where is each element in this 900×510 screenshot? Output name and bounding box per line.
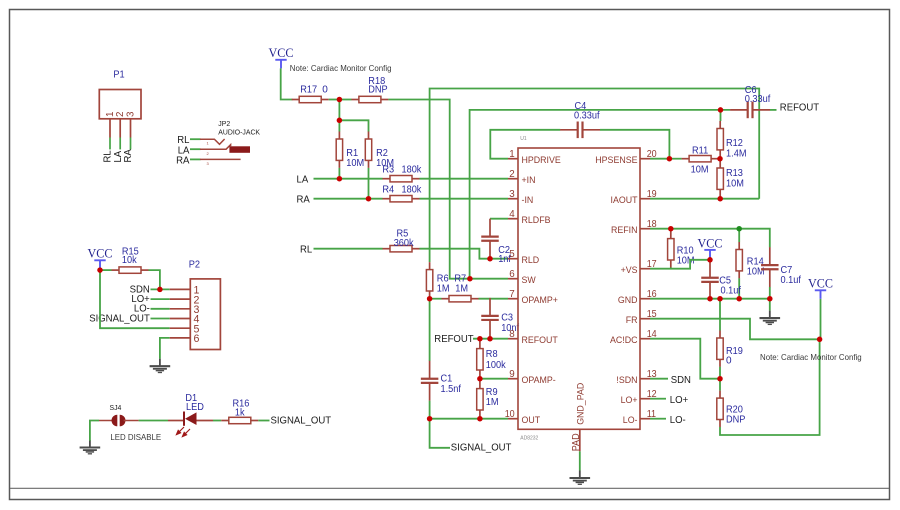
svg-text:1k: 1k — [235, 407, 246, 418]
svg-text:R3: R3 — [382, 165, 394, 176]
wire C1 to OUT line — [429, 401, 431, 419]
U1 pin 13 !SDN — [640, 378, 650, 380]
wire GND line — [650, 298, 770, 300]
junction GND/R19 — [717, 296, 723, 302]
resistor R8 — [477, 341, 483, 377]
svg-text:10M: 10M — [691, 164, 709, 175]
svg-text:FR: FR — [626, 315, 638, 326]
junction VCC/+VS/C5 — [707, 257, 713, 263]
power symbol VCC (right) — [808, 276, 833, 299]
wire RL to jack — [190, 138, 201, 140]
svg-text:LED DISABLE: LED DISABLE — [110, 432, 161, 442]
wire junction to C6 — [712, 109, 730, 111]
U1 pin 9 OPAMP- — [508, 378, 518, 380]
resistor R17 — [292, 96, 329, 102]
wire VCC down — [820, 299, 822, 339]
wire SW net: vertical to C6 line — [470, 110, 712, 279]
power symbol VCC (mid) — [698, 235, 723, 258]
U1 pin 20 HPSENSE — [640, 158, 650, 160]
svg-text:SIGNAL_OUT: SIGNAL_OUT — [89, 313, 150, 324]
wire VCC to P2 pin5 — [100, 270, 170, 328]
wire R18 right, down to SW node — [388, 100, 470, 279]
wire HPSENSE to junction — [650, 158, 669, 160]
P1 pin 3 — [130, 119, 132, 138]
op-amp IC U1 AD8232 body — [518, 148, 640, 429]
junction LA/R1 — [337, 176, 343, 182]
P2 pin 1 — [170, 288, 191, 290]
solder jumper SJ4 — [112, 415, 118, 427]
svg-text:GND_PAD: GND_PAD — [576, 383, 587, 425]
wire VCC stub to node — [709, 259, 711, 260]
svg-text:DNP: DNP — [368, 85, 388, 96]
P2 pin 3 — [170, 308, 191, 310]
svg-text:DNP: DNP — [726, 414, 746, 425]
U1 pin 6 SW — [508, 278, 518, 280]
wire tee to R2 — [339, 120, 368, 131]
svg-text:100k: 100k — [486, 360, 507, 371]
U1 pin 1 HPDRIVE — [508, 158, 518, 160]
junction OUT/R9 — [477, 416, 483, 422]
svg-text:180k: 180k — [402, 165, 423, 176]
svg-text:U1: U1 — [520, 136, 526, 142]
wire ground up to SJ4 — [90, 421, 99, 441]
U1 pin 8 REFOUT — [508, 338, 518, 340]
wire IAOUT line to R13 bottom — [650, 198, 759, 200]
svg-text:LO+: LO+ — [670, 395, 688, 406]
resistor R11 — [682, 156, 719, 162]
U1 pin 14 AC!DC — [640, 338, 650, 340]
svg-text:Note: Cardiac Monitor Config: Note: Cardiac Monitor Config — [760, 352, 862, 362]
U1 pin 10 OUT — [508, 418, 518, 420]
svg-text:P1: P1 — [113, 70, 125, 81]
wire R2 bottom to RA line — [368, 168, 370, 199]
svg-text:SJ4: SJ4 — [110, 405, 122, 412]
svg-text:6: 6 — [509, 269, 515, 280]
svg-text:LA: LA — [297, 174, 309, 185]
svg-text:10M: 10M — [677, 255, 695, 266]
wire !SDN stub — [650, 378, 668, 380]
junction C6/R12 — [718, 107, 724, 113]
junction R1/R2 top — [337, 118, 343, 124]
svg-text:LO-: LO- — [670, 415, 686, 426]
wire SDN to P2 pin1 — [151, 288, 170, 290]
wire OUT line — [430, 418, 508, 420]
wire R9 bottom to OUT line — [479, 418, 481, 419]
svg-text:AC!DC: AC!DC — [610, 335, 638, 346]
svg-text:0.1uf: 0.1uf — [781, 275, 802, 286]
U1 pin 16 GND — [640, 298, 650, 300]
U1 pin 11 LO- — [640, 418, 650, 420]
svg-text:REFOUT: REFOUT — [434, 334, 474, 345]
svg-text:+IN: +IN — [522, 175, 536, 186]
junction FR/VCC/R20 — [817, 337, 823, 343]
wire P2 pin6 to ground — [160, 338, 170, 359]
junction R19/R20/AC!DC — [717, 376, 723, 382]
svg-text:0.1uf: 0.1uf — [721, 286, 742, 297]
resistor R4 — [383, 196, 420, 202]
resistor R18 — [351, 96, 388, 102]
junction RA/R2 — [366, 196, 372, 202]
wire junction down to R1/R2 tee — [338, 100, 340, 121]
junction SW — [467, 276, 473, 282]
P2 pin 5 — [170, 327, 191, 329]
svg-text:PAD: PAD — [571, 433, 582, 451]
svg-text:LO+: LO+ — [621, 395, 638, 406]
junction GND/R14 — [736, 296, 742, 302]
svg-text:8: 8 — [509, 329, 515, 340]
junction R17/R18 — [337, 97, 343, 103]
svg-text:HPDRIVE: HPDRIVE — [522, 155, 561, 166]
wire R10 bottom to +VS line — [670, 267, 672, 268]
junction OPAMP-/R8/R9 — [477, 376, 483, 382]
LED D1 — [183, 412, 185, 426]
wire R19 top — [719, 299, 721, 331]
audio jack JP2 contact 1 (RL) — [200, 139, 225, 144]
svg-text:-IN: -IN — [522, 195, 534, 206]
junction R11/R12/R13 — [717, 156, 723, 162]
svg-text:6: 6 — [194, 333, 200, 345]
audio jack JP2 body — [229, 146, 250, 153]
wire R15 to SDN line — [149, 270, 160, 289]
wire R19 bottom to SDN node — [719, 367, 721, 379]
wire C6 to REFOUT label — [770, 109, 777, 111]
connector P2 — [190, 279, 220, 350]
P2 pin 6 — [170, 337, 191, 339]
junction REFIN/R10 — [668, 226, 674, 232]
svg-text:10: 10 — [505, 409, 515, 420]
svg-text:RLD: RLD — [522, 255, 540, 266]
svg-text:VCC: VCC — [269, 45, 294, 60]
wire R10 top — [670, 229, 672, 232]
svg-text:AD8232: AD8232 — [520, 436, 538, 442]
svg-text:3: 3 — [125, 111, 136, 117]
wire LO- to P2 pin3 — [151, 308, 170, 310]
wire pin HPDRIVE up and right — [490, 130, 560, 159]
svg-text:P2: P2 — [189, 260, 201, 271]
power symbol VCC (P2) — [88, 246, 113, 269]
svg-text:7: 7 — [509, 289, 514, 300]
svg-text:+VS: +VS — [621, 265, 638, 276]
wire R14 top — [738, 229, 740, 242]
U1 pin 18 REFIN — [640, 228, 650, 230]
wire LED to R16 — [197, 420, 214, 422]
svg-text:SDN: SDN — [671, 375, 691, 386]
capacitor C6 — [730, 102, 770, 119]
wire C7 to GND line — [769, 287, 771, 299]
svg-text:RA: RA — [297, 194, 310, 205]
wire LA to R3 — [314, 178, 383, 180]
wire R20 top — [719, 379, 721, 391]
svg-text:10M: 10M — [726, 179, 744, 190]
junction RLD/C2 — [487, 256, 493, 262]
wire tee to R1 — [338, 120, 340, 131]
svg-text:1M: 1M — [437, 284, 450, 295]
wire IAOUT loop: left vertical, top horizontal, right vertical — [430, 89, 760, 263]
svg-text:!SDN: !SDN — [616, 375, 637, 386]
wire SW node to pin 6 — [470, 278, 508, 280]
resistor R16 — [221, 417, 258, 423]
wire GND_PAD to ground — [579, 451, 581, 470]
wire R14 bottom to GND line — [738, 278, 740, 298]
svg-text:OPAMP+: OPAMP+ — [522, 295, 559, 306]
wire junction to R7 — [430, 298, 442, 300]
wire LO+ stub — [650, 398, 666, 400]
wire LA stub — [119, 138, 121, 150]
svg-text:R17: R17 — [300, 85, 317, 96]
junction OUT/C1 — [427, 416, 433, 422]
wire C6 node down to R12 — [720, 110, 722, 121]
svg-text:10k: 10k — [122, 255, 138, 266]
capacitor C1 — [421, 361, 439, 401]
capacitor C7 — [761, 247, 779, 287]
capacitor C4 — [560, 122, 600, 139]
junction REFIN/R14 (green) — [736, 226, 742, 232]
P1 pin 1 — [109, 119, 111, 138]
wire AC!DC routing — [650, 339, 718, 379]
wire OPAMP- to pin — [480, 378, 508, 380]
connector P1 — [99, 90, 141, 119]
power symbol VCC (top) — [269, 45, 294, 68]
svg-text:LED: LED — [186, 402, 204, 413]
wire R17 to junction — [329, 99, 340, 101]
svg-text:R8: R8 — [486, 349, 498, 360]
svg-text:RA: RA — [176, 156, 189, 167]
LED D1 arrows — [176, 427, 190, 437]
svg-text:1.5nf: 1.5nf — [441, 384, 462, 395]
svg-text:SW: SW — [522, 275, 537, 286]
resistor R12 — [717, 121, 723, 157]
svg-text:SIGNAL_OUT: SIGNAL_OUT — [451, 443, 512, 454]
resistor R2 — [365, 132, 371, 168]
wire SIGNAL_OUT to P2 pin4 — [151, 318, 170, 320]
wire RL to R5 — [314, 248, 383, 250]
P1 pin 2 — [119, 119, 121, 138]
svg-text:GND: GND — [618, 295, 638, 306]
svg-text:Note: Cardiac Monitor Config: Note: Cardiac Monitor Config — [290, 63, 392, 73]
wire LA to jack — [190, 148, 201, 150]
wire RL stub — [109, 138, 111, 150]
svg-text:HPSENSE: HPSENSE — [595, 155, 637, 166]
svg-text:0: 0 — [726, 355, 732, 366]
wire FR routing — [650, 319, 820, 340]
svg-text:REFIN: REFIN — [611, 225, 638, 236]
U1 pin 17 +VS — [640, 268, 650, 270]
wire LO+ to P2 pin2 — [151, 298, 170, 300]
resistor R13 — [717, 161, 723, 197]
svg-text:5: 5 — [509, 249, 515, 260]
junction VCC/R15/P2-5 — [97, 267, 103, 273]
junction SDN/R15 — [157, 287, 163, 293]
U1 pin 3 -IN — [508, 198, 518, 200]
wire REFOUT to pin — [473, 338, 508, 340]
svg-text:10M: 10M — [346, 158, 364, 169]
wire VCC to junction — [99, 269, 101, 270]
wire OUT to SIGNAL_OUT label — [430, 419, 450, 448]
resistor R15 — [112, 267, 149, 273]
wire +VS routing — [650, 260, 710, 269]
svg-text:RL: RL — [300, 244, 312, 255]
svg-text:0: 0 — [322, 85, 328, 96]
resistor R7 — [442, 296, 479, 302]
svg-text:REFOUT: REFOUT — [522, 335, 558, 346]
svg-text:IAOUT: IAOUT — [611, 195, 638, 206]
U1 pin 7 OPAMP+ — [508, 298, 518, 300]
resistor R6 — [426, 262, 432, 298]
wire R7 to pin OPAMP+ — [479, 298, 509, 300]
resistor R10 — [668, 231, 674, 267]
wire RA to R4 — [314, 198, 383, 200]
svg-text:VCC: VCC — [808, 276, 833, 291]
svg-text:REFOUT: REFOUT — [780, 103, 820, 114]
resistor R3 — [383, 176, 420, 182]
wire R1 bottom to LA line — [338, 168, 340, 179]
junction IAOUT/R13 — [717, 196, 723, 202]
junction HPSENSE/C4 — [667, 156, 673, 162]
resistor R14 — [736, 242, 742, 278]
wire R4 to pin -IN — [420, 198, 509, 200]
resistor R20 — [717, 391, 723, 427]
resistor R19 — [717, 331, 723, 367]
svg-text:VCC: VCC — [698, 235, 723, 250]
wire REFIN line — [650, 229, 770, 248]
wire LO- stub — [650, 418, 666, 420]
capacitor C2 — [481, 219, 499, 259]
resistor R9 — [477, 381, 483, 417]
svg-text:1.4M: 1.4M — [726, 148, 747, 159]
audio jack JP2 contact 3 (RA) — [200, 158, 241, 160]
svg-text:R11: R11 — [692, 145, 709, 156]
audio jack JP2 contact 2 (LA) — [200, 145, 231, 150]
wire down to right ground — [769, 299, 771, 311]
svg-text:OUT: OUT — [522, 415, 541, 426]
U1 pin 2 +IN — [508, 178, 518, 180]
resistor R1 — [336, 132, 342, 168]
wire R5 to pin RLD — [420, 249, 509, 259]
svg-text:AUDIO-JACK: AUDIO-JACK — [218, 130, 260, 137]
wire junction to R15 — [100, 269, 112, 271]
U1 pin GND_PAD (bottom) — [579, 429, 581, 451]
wire C4 to HPSENSE node — [600, 130, 669, 159]
svg-text:2: 2 — [509, 169, 514, 180]
svg-text:R4: R4 — [382, 185, 394, 196]
svg-text:1: 1 — [509, 149, 514, 160]
wire VCC/R20 loop — [720, 339, 820, 435]
wire pin RLDFB to C2 — [490, 218, 508, 220]
svg-text:RLDFB: RLDFB — [522, 215, 551, 226]
U1 pin 15 FR — [640, 318, 650, 320]
wire VCC to R17 — [281, 68, 293, 99]
wire RA to jack — [190, 158, 201, 160]
svg-text:LO-: LO- — [623, 415, 638, 426]
frame title divider — [10, 487, 889, 489]
svg-text:RA: RA — [123, 149, 134, 162]
P2 pin 4 — [170, 318, 191, 320]
wire junction to R18 — [339, 99, 351, 101]
wire SJ4 left lead — [99, 420, 113, 422]
junction REFOUT/R8 — [477, 336, 483, 342]
svg-text:4: 4 — [509, 209, 515, 220]
wire C1 branch down — [429, 299, 431, 361]
svg-text:0.33uf: 0.33uf — [574, 111, 600, 122]
svg-text:9: 9 — [509, 369, 514, 380]
ground (GND_PAD) — [570, 471, 591, 485]
wire junction to R11 — [669, 158, 681, 160]
svg-text:0.33uf: 0.33uf — [745, 94, 771, 105]
U1 pin 19 IAOUT — [640, 198, 650, 200]
svg-text:JP2: JP2 — [218, 121, 230, 128]
junction REFOUT/C3 — [487, 336, 493, 342]
wire RA stub — [130, 138, 132, 150]
wire SJ4 to LED — [124, 420, 139, 422]
ground (LED) — [80, 440, 101, 454]
capacitor C3 — [481, 298, 499, 338]
ground (P2) — [150, 359, 171, 373]
wire R8 bottom to OPAMP- — [479, 378, 481, 379]
svg-text:OPAMP-: OPAMP- — [522, 375, 556, 386]
svg-text:1M: 1M — [455, 284, 468, 295]
capacitor C5 — [701, 260, 719, 300]
wire R3 to pin +IN — [420, 178, 509, 180]
junction R6/R7/C1 — [427, 296, 433, 302]
U1 pin 12 LO+ — [640, 398, 650, 400]
svg-text:VCC: VCC — [88, 246, 113, 261]
svg-text:3: 3 — [509, 189, 515, 200]
LED D1 cathode lead — [168, 420, 184, 422]
U1 pin 4 RLDFB — [508, 218, 518, 220]
svg-text:180k: 180k — [402, 185, 423, 196]
resistor R5 — [383, 246, 420, 252]
junction GND/C5 — [707, 296, 713, 302]
wire R16 to SIGNAL_OUT — [258, 420, 269, 422]
P2 pin 2 — [170, 298, 191, 300]
svg-text:1M: 1M — [486, 397, 499, 408]
ground (right) — [760, 311, 781, 325]
svg-text:SIGNAL_OUT: SIGNAL_OUT — [271, 416, 332, 427]
wire R11 to R12/R13 node — [719, 158, 720, 160]
svg-text:360k: 360k — [394, 238, 415, 249]
junction GND/C7/ground — [767, 296, 773, 302]
U1 pin 5 RLD — [508, 258, 518, 260]
